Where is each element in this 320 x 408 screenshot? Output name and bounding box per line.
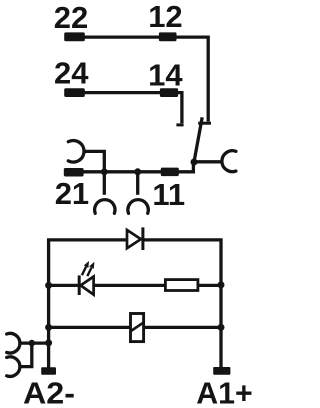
wire coil to right rail [145,326,222,329]
wire A2 socket lower [21,343,32,367]
resistor R1 [165,280,198,291]
terminal A1 [213,367,230,375]
dome socket 1 [95,200,115,214]
socket arc A2 upper [7,333,20,353]
svg-text:14: 14 [148,57,183,92]
socket arc A2 lower [7,357,20,377]
svg-text:A2-: A2- [23,375,75,408]
LED arrow 2 [87,268,91,277]
svg-text:24: 24 [54,56,89,91]
diode D1 cathode bar [141,227,144,250]
right rail A1 [143,240,221,368]
relay coil K1 [131,314,144,342]
LED cathode bar [78,275,81,295]
junction dot A2 rail [45,339,52,346]
junction dot rail mid [134,168,141,175]
wire A2 socket upper [21,341,49,344]
wire 22 to 12 contact [74,37,208,122]
contact foot 12 [198,122,211,125]
wire resistor to right rail [199,284,222,287]
coil diagonal [130,322,144,332]
dome socket 2 [128,200,148,214]
svg-text:11: 11 [152,177,185,212]
wire LED to resistor [94,284,166,287]
wire 24 to 14 contact [74,93,182,124]
contact foot 14 [176,123,183,126]
terminal 21 [64,168,84,177]
terminal 11 [161,168,179,177]
junction dot common [191,159,198,166]
wire socket 21 to rail [83,151,105,170]
svg-text:12: 12 [148,0,182,34]
terminal A2 [41,367,56,374]
terminal 12 [159,32,177,41]
wire coil row left [49,326,130,329]
junction dot rail left [101,168,108,175]
junction dot resistor row right [218,281,225,288]
diode D1 triangle [127,230,141,248]
LED triangle [81,277,94,295]
svg-text:21: 21 [55,176,89,211]
junction dot A2 branch [29,340,36,347]
wire LED row left [49,284,80,287]
LED arrow 1 [82,267,86,276]
terminal 14 [160,88,178,97]
stub to dome 2 [136,172,139,195]
wire common to socket 11 [196,160,222,163]
junction dot LED row left [45,282,52,289]
junction dot coil row left [45,324,52,331]
socket arc left of 21 [68,141,84,163]
left rail A2 [49,240,127,368]
junction dot coil row right [218,324,225,331]
socket arc right of 11 [222,151,236,172]
switch lever [194,117,202,162]
svg-text:22: 22 [54,0,88,35]
terminal 24 [64,88,85,97]
stub to dome 1 [103,172,106,195]
wire common down to 11 rail [83,163,194,172]
svg-text:A1+: A1+ [196,375,253,408]
terminal 22 [64,32,85,41]
